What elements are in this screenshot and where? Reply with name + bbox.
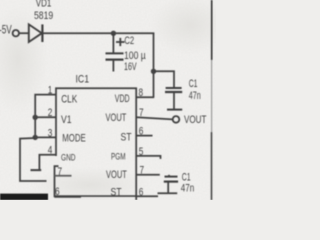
svg-text:VOUT: VOUT — [106, 112, 127, 124]
svg-text:ST: ST — [111, 187, 122, 199]
ground GND — [31, 169, 42, 171]
svg-text:16V: 16V — [124, 61, 137, 73]
svg-text:VOUT: VOUT — [184, 114, 207, 126]
node pin3 — [33, 135, 38, 140]
svg-text:7: 7 — [58, 166, 63, 178]
pin 1 wire — [35, 95, 56, 138]
svg-text:MODE: MODE — [62, 133, 85, 145]
IC2 pin7 left stub — [55, 175, 72, 177]
IC2 pin 6 right stub — [136, 195, 158, 197]
wire -5V to diode — [19, 32, 29, 34]
pin 3 wire — [35, 136, 56, 138]
IC2 pin6 long wire — [81, 195, 136, 197]
pin 7 wire to VOUT — [136, 117, 173, 119]
pin 8 wire — [136, 96, 154, 98]
svg-text:5819: 5819 — [34, 10, 53, 22]
IC2 pin6 left wire thick part — [55, 195, 82, 198]
svg-text:4: 4 — [48, 145, 53, 157]
pin 6 stub — [136, 135, 152, 137]
node junction C2 — [111, 31, 116, 36]
svg-text:VDD: VDD — [115, 93, 130, 105]
svg-text:IC1: IC1 — [76, 74, 90, 86]
svg-text:6: 6 — [55, 186, 60, 198]
wire pin3 to lower-left — [20, 138, 47, 181]
svg-text:7: 7 — [139, 107, 144, 119]
capacitor C1 second — [168, 175, 170, 177]
wire to C1 — [154, 71, 175, 87]
svg-text:3: 3 — [48, 127, 53, 139]
plus polarity mark — [116, 41, 125, 43]
svg-text:ST: ST — [121, 132, 132, 144]
svg-text:6: 6 — [139, 186, 144, 198]
svg-text:2: 2 — [48, 107, 53, 119]
svg-text:47n: 47n — [181, 183, 194, 195]
svg-text:47n: 47n — [189, 90, 201, 102]
svg-text:7: 7 — [140, 164, 145, 176]
pin 4 wire — [39, 155, 56, 170]
svg-text:C1: C1 — [182, 171, 191, 183]
svg-text:8: 8 — [139, 87, 144, 99]
svg-text:-5V: -5V — [0, 25, 12, 37]
svg-text:6: 6 — [139, 125, 144, 137]
svg-text:5: 5 — [139, 146, 144, 158]
capacitor C2 — [112, 33, 114, 53]
svg-text:C2: C2 — [124, 35, 134, 47]
wire diode to rail corner — [42, 32, 154, 34]
svg-text:VD1: VD1 — [36, 0, 52, 10]
ground bar under C1 — [167, 109, 182, 111]
paper background — [0, 0, 216, 200]
node junction C1 — [151, 69, 156, 74]
terminal VOUT — [173, 116, 180, 123]
pin 5 stub — [136, 156, 160, 159]
svg-text:CLK: CLK — [61, 94, 77, 106]
node pin2 — [33, 115, 38, 120]
svg-text:C1: C1 — [189, 78, 198, 90]
IC1 box — [56, 88, 136, 200]
svg-text:GND: GND — [61, 152, 76, 163]
scan black band bottom left — [0, 194, 48, 200]
diode VD1 — [29, 24, 42, 42]
wire rail down — [153, 33, 155, 98]
capacitor C1 — [166, 87, 182, 89]
svg-text:PGM: PGM — [111, 151, 126, 162]
pin 2 wire — [35, 116, 56, 118]
page column rule right edge — [211, 0, 213, 60]
svg-text:1: 1 — [48, 85, 53, 97]
wire under C1 second — [158, 192, 178, 194]
svg-text:V1: V1 — [61, 114, 72, 126]
IC2 partial box left edge — [55, 166, 59, 197]
svg-text:VOUT: VOUT — [106, 169, 127, 181]
IC2 pin 7 right stub — [136, 174, 160, 176]
terminal -5V — [13, 30, 19, 36]
